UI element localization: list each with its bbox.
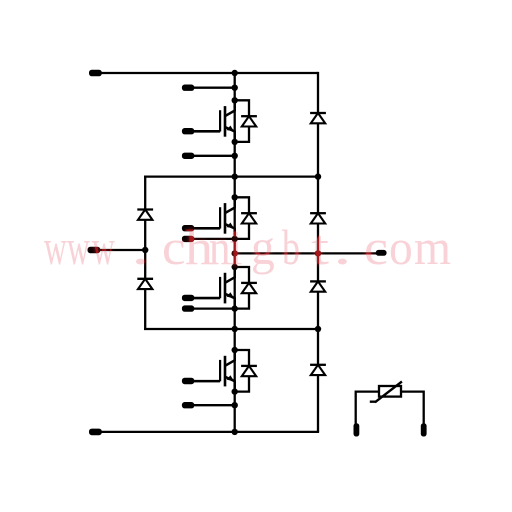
node box bottom / right rail [315, 326, 321, 332]
node box top / right rail [315, 173, 321, 179]
wire left clamp rail [144, 177, 146, 329]
freewheel diode D3 [235, 267, 257, 309]
node DC- / branch [232, 429, 238, 435]
wire right rail vertical [317, 72, 319, 432]
wire thermistor right lead [401, 392, 424, 424]
terminal thermistor 2 [421, 423, 427, 436]
IGBT Q3 [188, 267, 235, 309]
junction [232, 85, 238, 91]
terminal DC+ [89, 70, 102, 77]
node Q2 emitter [232, 236, 238, 242]
wire gate terminal G4 lead [187, 380, 220, 382]
wire aux collector terminal Q1 lead [187, 87, 235, 89]
wire gate terminal G3 lead [187, 297, 220, 299]
freewheel diode D4 [235, 350, 257, 392]
IGBT Q2 [188, 197, 235, 239]
node Q3 collector [232, 264, 238, 270]
series diode D10 [310, 365, 326, 375]
wire aux emitter terminal E3 lead [187, 307, 235, 309]
clamp diode D6 [137, 279, 153, 289]
wire inner box bottom [144, 328, 318, 330]
series diode D9 [310, 281, 326, 291]
wire bottom DC- rail [95, 431, 319, 433]
node Q1 emitter [232, 139, 238, 145]
IGBT Q1 [188, 100, 235, 142]
terminal neutral N [88, 247, 101, 253]
node AC / right rail [315, 250, 321, 256]
wire inner box top [144, 175, 318, 177]
gate terminal G2 [182, 225, 194, 231]
wire gate terminal G2 lead [187, 227, 220, 229]
freewheel diode D2 [235, 197, 257, 239]
wire thermistor left lead [356, 392, 379, 424]
node neutral / left rail [142, 247, 148, 253]
series diode D7 [310, 113, 326, 123]
node Q1 collector [232, 97, 238, 103]
node Q2 collector [232, 194, 238, 200]
gate terminal G1 [182, 128, 194, 134]
node box top / branch [232, 173, 238, 179]
IGBT Q4 [188, 350, 235, 392]
junction [232, 153, 238, 159]
wire AC output lead [235, 252, 377, 254]
node box bottom / branch [232, 326, 238, 332]
wire aux emitter terminal E4 lead [187, 404, 235, 406]
wire top DC+ rail [95, 72, 318, 74]
wire gate terminal G1 lead [187, 130, 220, 132]
aux emitter terminal E2 [182, 236, 194, 242]
series diode D8 [310, 213, 326, 223]
clamp diode D5 [137, 210, 153, 220]
node Q4 collector [232, 347, 238, 353]
freewheel diode D1 [235, 100, 257, 142]
junction [232, 402, 238, 408]
wire aux emitter terminal E1 lead [187, 155, 235, 157]
node DC+ / branch [232, 70, 238, 76]
gate terminal G4 [182, 378, 194, 384]
terminal thermistor 1 [354, 423, 360, 436]
wire main vertical branch [234, 73, 236, 432]
aux emitter terminal E4 [182, 402, 194, 408]
terminal AC output [376, 250, 387, 256]
terminal DC- [89, 429, 102, 436]
aux emitter terminal E3 [182, 305, 194, 311]
wire aux emitter terminal E2 lead [187, 238, 235, 240]
node Q4 emitter [232, 388, 238, 394]
aux emitter terminal E1 [182, 153, 194, 159]
node AC output [232, 250, 238, 256]
node Q3 emitter [232, 305, 238, 311]
gate terminal G3 [182, 295, 194, 301]
aux collector terminal Q1 [182, 85, 194, 91]
thermistor RT1 [370, 382, 402, 403]
wire neutral terminal lead [95, 249, 145, 251]
